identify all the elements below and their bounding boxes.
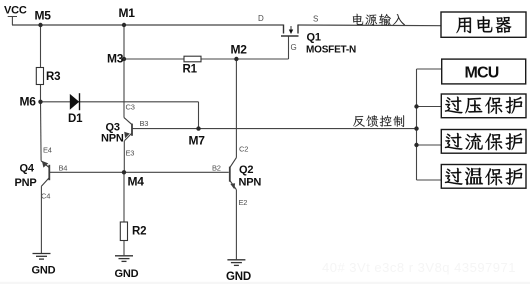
svg-text:PNP: PNP <box>15 177 37 189</box>
svg-text:C4: C4 <box>41 192 50 201</box>
svg-text:GND: GND <box>32 265 56 277</box>
text overtemperature box <box>445 168 522 186</box>
transistor Q3 <box>124 118 132 141</box>
node M2 junction <box>234 57 238 61</box>
svg-text:Q1: Q1 <box>307 32 321 44</box>
svg-text:G: G <box>291 43 297 52</box>
wire Q3 emitter to M4 <box>123 141 125 172</box>
svg-text:B3: B3 <box>140 119 149 128</box>
svg-text:GND: GND <box>115 268 139 280</box>
wire Q1 gate lead <box>288 36 290 59</box>
wire feedback Q3 base to bus <box>132 128 417 130</box>
svg-text:MOSFET-N: MOSFET-N <box>306 45 356 56</box>
wire branch to overtemperature box <box>417 179 443 181</box>
node M7 junction <box>196 126 200 130</box>
svg-text:E4: E4 <box>43 146 52 155</box>
svg-text:S: S <box>313 15 318 24</box>
label feedback-control (fankui kongzhi) <box>353 115 404 127</box>
svg-text:VCC: VCC <box>4 5 27 17</box>
mosfet Q1 symbol <box>281 25 299 37</box>
svg-text:M4: M4 <box>128 175 145 189</box>
svg-text:Q2: Q2 <box>239 164 253 176</box>
wire top rail VCC-M5-M1 to Q1 drain <box>12 24 284 26</box>
svg-text:M3: M3 <box>107 52 124 66</box>
node M1 junction <box>122 23 126 27</box>
resistor R3 <box>36 68 43 85</box>
wire M6 to Q4 emitter <box>40 102 43 161</box>
svg-text:40# 3Vt e3c8 r 3V8q 43597971: 40# 3Vt e3c8 r 3V8q 43597971 <box>322 260 516 275</box>
resistor R1 <box>184 56 201 62</box>
box overtemperature protection <box>441 165 526 189</box>
bottom scan edge <box>0 282 530 284</box>
wire M4 to R2 <box>123 172 125 222</box>
wire Q1 source to load box <box>298 24 441 27</box>
wire D1 to M7 drop <box>198 102 200 129</box>
box load (yong dian qi) <box>441 12 526 37</box>
node M6 junction <box>38 100 42 104</box>
svg-text:NPN: NPN <box>239 177 262 189</box>
svg-text:D1: D1 <box>68 113 83 125</box>
wire M2 vertical to Q2 collector <box>235 59 237 158</box>
svg-text:GND: GND <box>226 271 251 283</box>
wire Q4 collector to GND <box>40 186 42 253</box>
wire branch to overcurrent box <box>417 144 442 146</box>
wire R2 to GND <box>123 241 125 256</box>
transistor Q4 <box>41 161 49 186</box>
svg-text:D: D <box>258 14 264 23</box>
svg-text:E2: E2 <box>239 198 248 207</box>
svg-text:Q4: Q4 <box>20 163 35 175</box>
svg-text:NPN: NPN <box>101 133 124 145</box>
ground Q4 <box>33 254 51 260</box>
diode D1 <box>70 93 80 110</box>
box overvoltage protection <box>441 94 526 118</box>
resistor R2 <box>120 222 127 241</box>
svg-text:R1: R1 <box>183 64 198 76</box>
node M4 junction <box>122 170 126 174</box>
text overvoltage box <box>445 97 522 114</box>
svg-text:MCU: MCU <box>465 65 499 82</box>
box MCU <box>442 59 526 84</box>
wire M6 diode row <box>41 101 199 103</box>
svg-text:M1: M1 <box>119 6 136 20</box>
box overcurrent protection <box>441 130 526 154</box>
wire M3-R1-M2-gate row <box>124 58 289 60</box>
svg-text:E3: E3 <box>126 149 135 158</box>
junction bus-overcurrent <box>414 143 418 147</box>
wire Q2 emitter to GND <box>235 190 237 260</box>
svg-text:C2: C2 <box>239 145 248 154</box>
wire branch to overvoltage box <box>417 106 442 108</box>
wire VCC stub <box>8 17 17 26</box>
svg-text:R2: R2 <box>132 226 146 238</box>
svg-text:R3: R3 <box>46 71 60 83</box>
svg-text:C3: C3 <box>126 103 135 112</box>
wire branch to MCU <box>417 68 443 70</box>
text overcurrent box <box>445 133 522 150</box>
svg-text:B4: B4 <box>59 163 68 172</box>
wire control bus vertical <box>416 69 418 180</box>
svg-text:M6: M6 <box>20 95 37 109</box>
junction bus-feedback <box>414 126 418 130</box>
wire left vertical M5-R3 <box>40 25 42 68</box>
text load box <box>456 16 511 33</box>
ground R2 <box>115 256 133 262</box>
wire M1 vertical to Q3 collector <box>123 25 125 118</box>
ground Q2 <box>227 260 245 266</box>
node M5 junction <box>38 23 42 27</box>
svg-text:M7: M7 <box>189 134 206 148</box>
junction bus-overvoltage <box>414 104 418 108</box>
svg-text:M2: M2 <box>231 43 248 57</box>
transistor Q2 <box>230 158 237 190</box>
wire base bus Q4-M4-Q2 <box>50 171 229 173</box>
label power-input (dianyuan shuru) <box>353 14 405 26</box>
svg-text:B2: B2 <box>212 164 221 173</box>
node M3 junction <box>122 57 126 61</box>
wire R3-M6 <box>40 84 42 102</box>
svg-text:M5: M5 <box>35 9 52 23</box>
